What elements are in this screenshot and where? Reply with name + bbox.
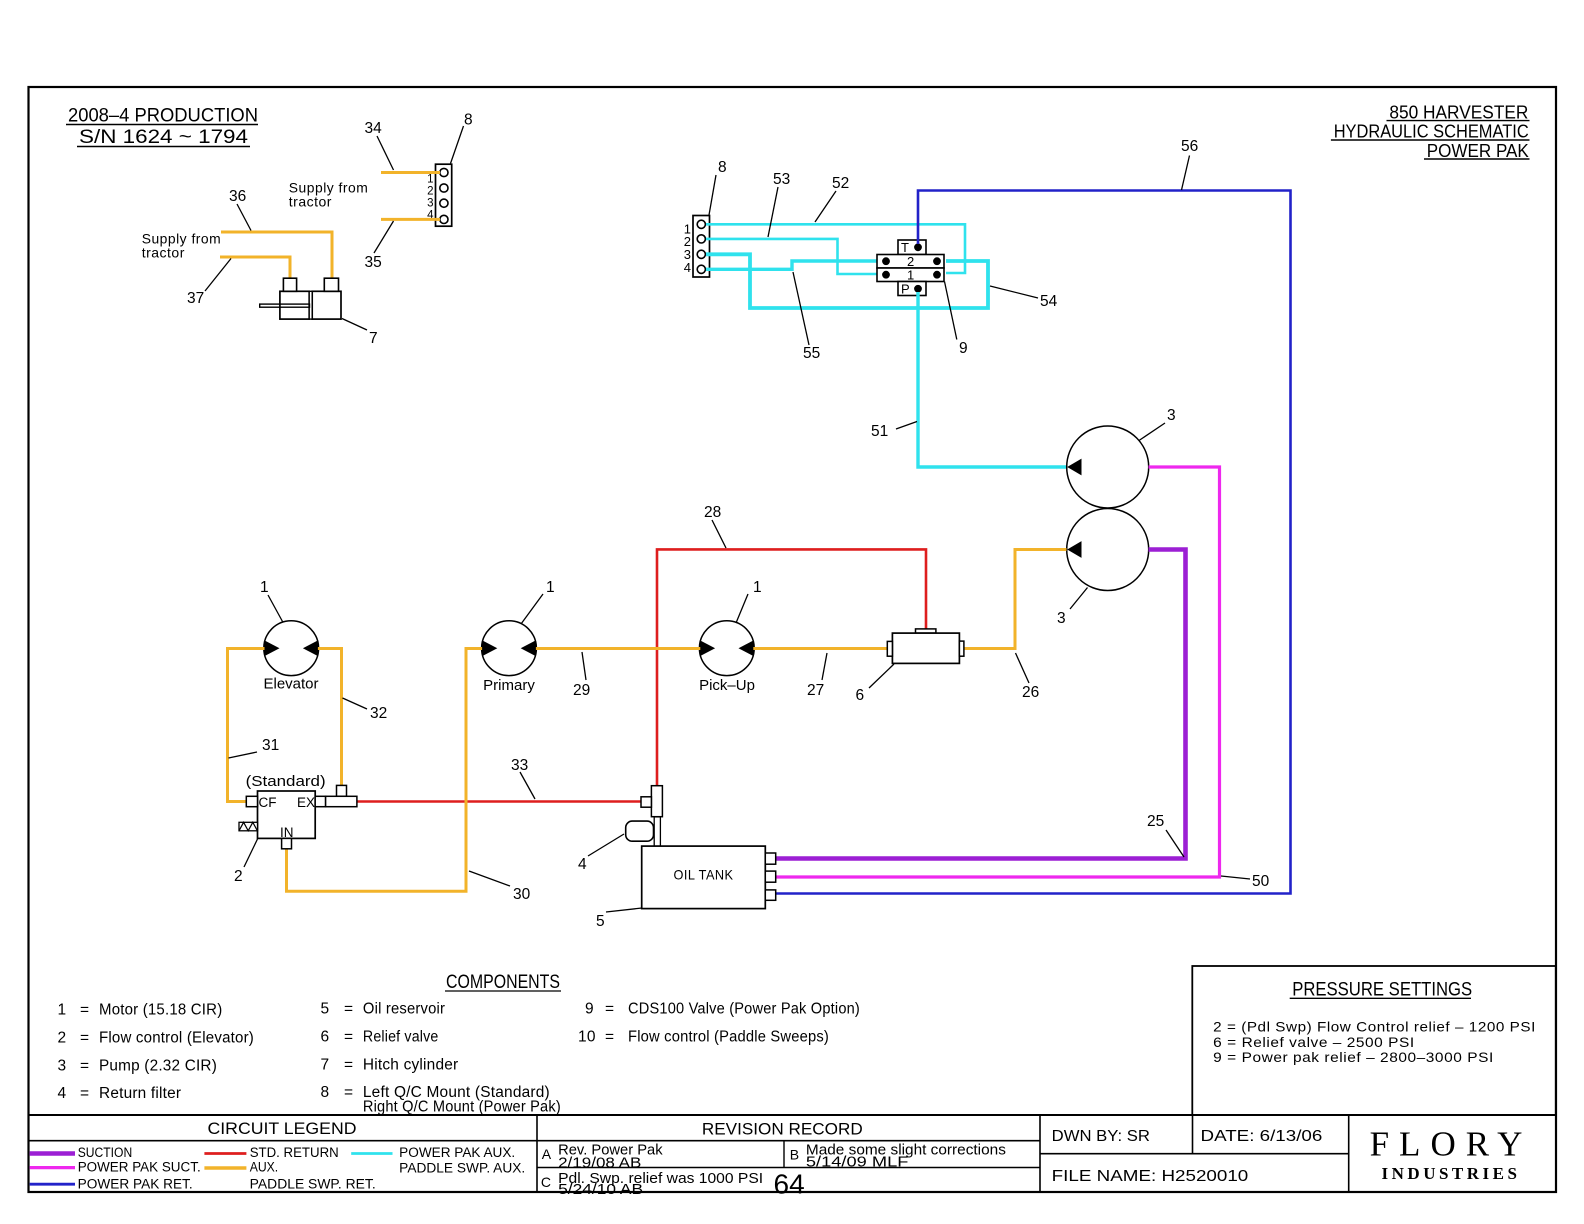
- svg-text:37: 37: [187, 290, 204, 307]
- svg-text:9: 9: [585, 1001, 594, 1018]
- relief valve 6: [856, 629, 964, 704]
- svg-text:POWER PAK: POWER PAK: [1427, 141, 1529, 161]
- svg-text:=: =: [344, 1084, 353, 1101]
- svg-text:PADDLE SWP. RET.: PADDLE SWP. RET.: [250, 1177, 376, 1192]
- svg-text:PADDLE SWP. AUX.: PADDLE SWP. AUX.: [399, 1161, 525, 1176]
- svg-text:51: 51: [871, 423, 888, 440]
- svg-text:=: =: [605, 1029, 614, 1046]
- svg-text:Elevator: Elevator: [263, 676, 318, 693]
- svg-text:DATE: 6/13/06: DATE: 6/13/06: [1201, 1128, 1323, 1145]
- svg-text:5: 5: [596, 913, 605, 930]
- svg-text:8: 8: [464, 112, 473, 129]
- svg-text:1: 1: [58, 1002, 67, 1019]
- wire 32 aux elevator right: [318, 649, 387, 789]
- svg-text:1: 1: [260, 579, 269, 596]
- svg-text:54: 54: [1040, 293, 1058, 310]
- svg-text:Oil reservoir: Oil reservoir: [363, 1001, 445, 1018]
- svg-text:9: 9: [959, 340, 968, 357]
- svg-text:=: =: [80, 1058, 89, 1075]
- svg-text:2: 2: [234, 868, 243, 885]
- svg-text:3: 3: [1057, 610, 1066, 627]
- wire 28 std return: [657, 504, 926, 786]
- svg-text:REVISION RECORD: REVISION RECORD: [702, 1120, 863, 1139]
- svg-text:36: 36: [229, 188, 246, 205]
- svg-text:IN: IN: [280, 825, 294, 840]
- svg-text:53: 53: [773, 171, 790, 188]
- svg-text:7: 7: [321, 1057, 330, 1074]
- svg-text:5/14/09 MLF: 5/14/09 MLF: [806, 1155, 909, 1171]
- svg-text:56: 56: [1181, 138, 1198, 155]
- wire 52 power pak aux: [706, 175, 965, 273]
- text supply from tractor (left): [142, 231, 222, 261]
- svg-text:Relief valve: Relief valve: [363, 1029, 439, 1046]
- svg-text:A: A: [542, 1146, 552, 1162]
- wire 27 aux pickup to relief valve: [753, 649, 887, 700]
- connector 8 right Q/C mount (power pak): [684, 159, 727, 277]
- svg-text:30: 30: [513, 886, 531, 903]
- svg-text:4: 4: [578, 856, 587, 873]
- svg-text:850 HARVESTER: 850 HARVESTER: [1389, 102, 1528, 122]
- pump 3 upper: [1067, 407, 1176, 508]
- svg-text:FILE NAME: H2520010: FILE NAME: H2520010: [1052, 1168, 1249, 1185]
- svg-text:tractor: tractor: [142, 245, 185, 261]
- wire 34 aux supply: [365, 120, 441, 173]
- svg-text:POWER PAK SUCT.: POWER PAK SUCT.: [78, 1160, 201, 1175]
- motor 1 Primary: [482, 579, 555, 694]
- wire 25 suction (purple): [776, 550, 1186, 859]
- title: production serial numbers: [66, 106, 258, 149]
- motor 1 Elevator: [260, 579, 319, 693]
- wire 53 power pak aux: [706, 171, 884, 274]
- svg-text:6 = Relief valve – 2500: 6 = Relief valve – 2500 PSI: [1213, 1034, 1415, 1050]
- flow control 2 (Elevator): [234, 773, 326, 885]
- svg-text:2: 2: [427, 186, 433, 198]
- wire 54 paddle sweep aux: [706, 254, 1058, 310]
- svg-text:64: 64: [774, 1169, 805, 1200]
- wire 33 std return: [357, 757, 642, 802]
- svg-text:29: 29: [573, 682, 590, 699]
- svg-text:=: =: [344, 1001, 353, 1018]
- svg-text:POWER PAK AUX.: POWER PAK AUX.: [399, 1145, 515, 1160]
- svg-text:Pump (2.32 CIR): Pump (2.32 CIR): [99, 1058, 217, 1075]
- tee fitting at EX: [326, 785, 357, 806]
- svg-text:1: 1: [907, 268, 914, 283]
- svg-text:Motor (15.18 CIR): Motor (15.18 CIR): [99, 1002, 222, 1019]
- svg-text:32: 32: [370, 705, 387, 722]
- svg-text:C: C: [541, 1174, 551, 1190]
- svg-text:=: =: [605, 1001, 614, 1018]
- svg-text:50: 50: [1252, 873, 1270, 890]
- svg-text:9 = Power pak relief – 2: 9 = Power pak relief – 2800–3000 PSI: [1213, 1049, 1494, 1065]
- svg-text:=: =: [344, 1057, 353, 1074]
- svg-text:P: P: [901, 282, 910, 297]
- svg-text:FLORY: FLORY: [1370, 1125, 1533, 1164]
- svg-text:27: 27: [807, 682, 824, 699]
- svg-text:DWN BY: SR: DWN BY: SR: [1052, 1128, 1150, 1145]
- svg-text:B: B: [790, 1147, 799, 1163]
- wire 55 paddle sweep aux: [706, 261, 884, 362]
- svg-text:8: 8: [321, 1084, 330, 1101]
- svg-text:4: 4: [684, 260, 691, 275]
- svg-text:5/24/10 AB: 5/24/10 AB: [558, 1182, 643, 1198]
- oil tank 5: [596, 846, 776, 930]
- svg-text:55: 55: [803, 345, 820, 362]
- svg-text:CIRCUIT LEGEND: CIRCUIT LEGEND: [208, 1119, 357, 1138]
- spring symbol: [239, 822, 258, 831]
- wire 51 power pak pressure (cyan): [871, 292, 1066, 467]
- svg-text:POWER PAK RET.: POWER PAK RET.: [78, 1177, 193, 1192]
- svg-text:1: 1: [753, 579, 762, 596]
- circuit legend swatches: [30, 1145, 526, 1191]
- pump 3 lower: [1057, 509, 1149, 628]
- svg-text:Flow control (Paddle Sweeps: Flow control (Paddle Sweeps): [628, 1029, 829, 1046]
- svg-text:5: 5: [321, 1001, 330, 1018]
- svg-text:=: =: [344, 1029, 353, 1046]
- svg-text:2/19/08 AB: 2/19/08 AB: [558, 1155, 641, 1171]
- svg-text:=: =: [80, 1030, 89, 1047]
- svg-text:3: 3: [427, 198, 433, 210]
- svg-text:34: 34: [365, 120, 383, 137]
- svg-text:1: 1: [427, 174, 433, 186]
- svg-text:tractor: tractor: [289, 193, 332, 209]
- svg-text:=: =: [80, 1002, 89, 1019]
- svg-text:1: 1: [546, 579, 555, 596]
- text supply from tractor (right): [289, 179, 369, 209]
- svg-text:3: 3: [58, 1058, 67, 1075]
- svg-text:28: 28: [704, 504, 721, 521]
- svg-text:=: =: [80, 1085, 89, 1102]
- svg-text:STD. RETURN: STD. RETURN: [250, 1145, 339, 1160]
- svg-text:CF: CF: [259, 795, 277, 810]
- title: drawing name: [1331, 102, 1530, 160]
- svg-text:35: 35: [365, 254, 382, 271]
- tee fitting at tank: [641, 786, 662, 846]
- wire 37 to hitch cylinder: [187, 257, 290, 307]
- svg-text:COMPONENTS: COMPONENTS: [446, 972, 560, 993]
- svg-text:INDUSTRIES: INDUSTRIES: [1382, 1164, 1521, 1183]
- svg-text:(Standard): (Standard): [246, 773, 326, 790]
- motor 1 Pick-Up: [699, 579, 762, 694]
- hitch cylinder 7: [260, 278, 378, 347]
- svg-text:2: 2: [58, 1030, 67, 1047]
- connector 8 left Q/C mount (standard): [427, 112, 473, 227]
- components list: [58, 972, 861, 1116]
- svg-text:31: 31: [262, 737, 279, 754]
- revision record entries: [541, 1143, 1006, 1200]
- CDS100 valve 9: [877, 240, 968, 357]
- svg-text:25: 25: [1147, 813, 1164, 830]
- svg-text:PRESSURE SETTINGS: PRESSURE SETTINGS: [1292, 980, 1472, 1001]
- svg-text:7: 7: [369, 330, 378, 347]
- svg-text:26: 26: [1022, 684, 1039, 701]
- return filter 4: [578, 821, 654, 873]
- title block: [29, 1115, 1557, 1192]
- wire 26 aux to lower pump: [961, 550, 1067, 702]
- svg-text:8: 8: [718, 159, 727, 176]
- svg-text:EX: EX: [297, 795, 315, 810]
- svg-text:OIL TANK: OIL TANK: [674, 866, 734, 882]
- svg-text:T: T: [901, 240, 909, 255]
- wire 31 aux elevator left loop: [228, 649, 280, 802]
- svg-text:3: 3: [1167, 407, 1176, 424]
- svg-text:4: 4: [58, 1085, 67, 1102]
- svg-text:52: 52: [832, 175, 849, 192]
- svg-text:33: 33: [511, 757, 528, 774]
- wire 30 aux flow-control IN to primary: [287, 649, 531, 904]
- svg-text:2008–4 PRODUCTION: 2008–4 PRODUCTION: [68, 106, 258, 127]
- svg-text:Return filter: Return filter: [99, 1085, 181, 1102]
- wire 29 aux primary to pickup: [536, 649, 700, 700]
- wire 56 power pak return: [776, 138, 1291, 894]
- FLORY INDUSTRIES logo: [1370, 1125, 1533, 1184]
- svg-text:6: 6: [856, 687, 865, 704]
- svg-text:AUX.: AUX.: [250, 1160, 279, 1175]
- pressure settings box: [1192, 966, 1556, 1115]
- svg-text:S/N 1624 ~ 1794: S/N 1624 ~ 1794: [79, 127, 249, 148]
- wire 50 power pak suction (magenta): [776, 467, 1270, 890]
- wire 35 aux supply: [365, 219, 441, 271]
- svg-text:Pick–Up: Pick–Up: [699, 677, 755, 694]
- svg-text:Primary: Primary: [483, 677, 535, 694]
- svg-text:SUCTION: SUCTION: [78, 1145, 133, 1160]
- svg-text:6: 6: [321, 1029, 330, 1046]
- svg-text:10: 10: [578, 1029, 596, 1046]
- svg-text:HYDRAULIC SCHEMATIC: HYDRAULIC SCHEMATIC: [1334, 122, 1529, 142]
- svg-text:2 = (Pdl Swp) Flow Contro: 2 = (Pdl Swp) Flow Control relief – 1200…: [1213, 1019, 1536, 1035]
- svg-text:Flow control (Elevator): Flow control (Elevator): [99, 1030, 254, 1047]
- svg-text:Right Q/C Mount (Power Pak: Right Q/C Mount (Power Pak): [363, 1099, 561, 1116]
- wire 36 to hitch cylinder: [221, 188, 332, 279]
- svg-text:CDS100 Valve (Power Pak Op: CDS100 Valve (Power Pak Option): [628, 1001, 860, 1018]
- svg-text:Hitch cylinder: Hitch cylinder: [363, 1057, 459, 1074]
